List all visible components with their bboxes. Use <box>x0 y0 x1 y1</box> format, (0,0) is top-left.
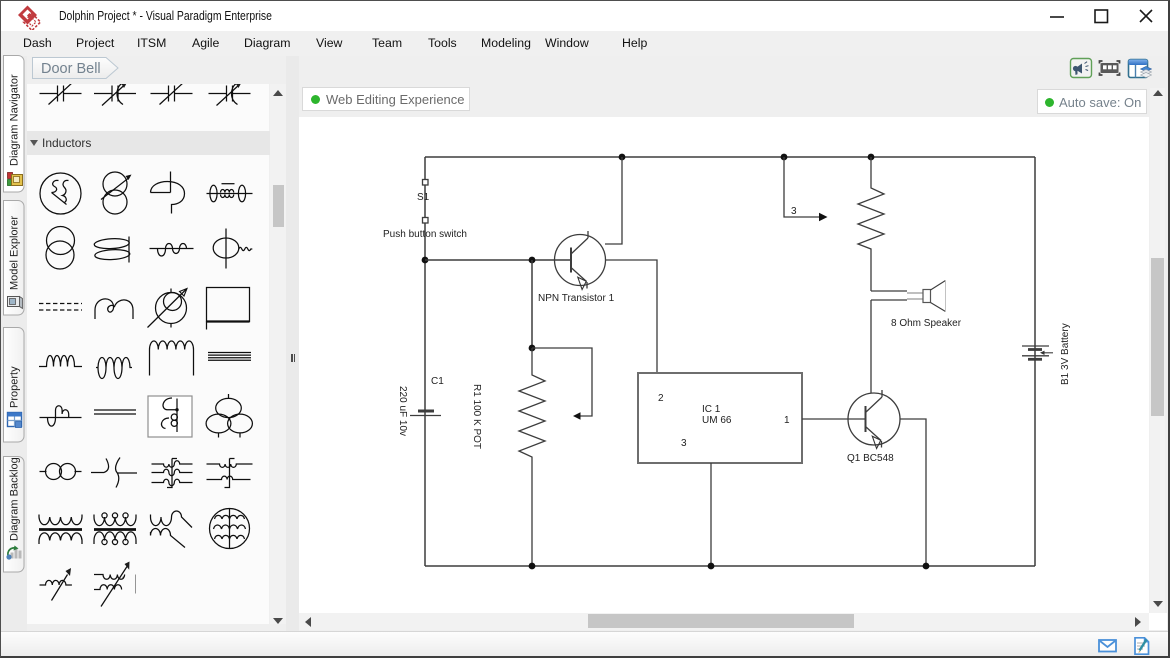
palette triple line core <box>208 353 251 361</box>
wire left rail <box>424 157 426 566</box>
svg-text:Diagram Navigator: Diagram Navigator <box>9 74 21 166</box>
wire top rail <box>425 156 1035 158</box>
palette open square coil <box>150 341 194 376</box>
label S1 <box>417 192 430 203</box>
resistor R1 100K POT zigzag <box>519 348 545 566</box>
label 220 uF 10v (rotated) <box>397 386 408 436</box>
speaker LS1 leads <box>871 291 907 390</box>
node junction pot bottom <box>529 563 536 570</box>
svg-text:IC 1: IC 1 <box>702 404 721 415</box>
diagram navigator icon <box>8 173 23 186</box>
capacitor C1 plate long <box>410 415 441 417</box>
battery B1 plate short top <box>1028 348 1042 351</box>
palette variable coil arrow <box>40 568 72 601</box>
wire Q1 collector from speaker <box>870 390 872 393</box>
palette trimmer capacitor 2 <box>94 83 136 106</box>
palette double line core <box>94 410 136 414</box>
svg-text:S1: S1 <box>417 192 430 203</box>
speaker LS1 connector <box>907 293 923 299</box>
svg-text:3: 3 <box>681 438 687 449</box>
palette three phase transformer <box>206 394 252 438</box>
svg-text:Diagram Backlog: Diagram Backlog <box>9 457 21 541</box>
transistor NPN Transistor 1 <box>555 231 606 290</box>
label 8 Ohm Speaker <box>891 318 962 329</box>
node junction at base wire left <box>422 257 429 264</box>
palette ellipse coil with tail <box>213 229 252 269</box>
node 3 junction on top rail <box>781 154 788 161</box>
node junction pot branch <box>529 257 536 264</box>
panel scrollbar <box>270 84 286 624</box>
palette wave coil deep <box>40 406 82 426</box>
palette choke with rings <box>207 184 253 202</box>
pin 3 label <box>681 438 687 449</box>
palette coupled coils small <box>40 464 82 480</box>
palette transformer two circles <box>46 227 75 270</box>
node junction top rail collector feed <box>619 154 626 161</box>
node junction IC ground <box>708 563 715 570</box>
svg-text:Q1 BC548: Q1 BC548 <box>847 453 894 464</box>
wire pot branch vertical <box>531 260 533 348</box>
svg-text:1: 1 <box>784 415 790 426</box>
wire collector feed <box>605 157 622 244</box>
filmstrip button <box>1100 61 1120 75</box>
megaphone button <box>1071 59 1092 78</box>
palette coil 4 humps <box>39 356 82 367</box>
palette coil with tail <box>151 511 193 548</box>
capacitor C1 plate short <box>418 410 434 413</box>
palette m-loop coil <box>95 299 133 319</box>
node junction Q1 ground <box>923 563 930 570</box>
palette iron core transformer B <box>94 513 136 545</box>
wire base to NPN transistor <box>425 259 571 261</box>
palette wave coil <box>150 244 194 257</box>
label 3 (net) <box>791 206 797 217</box>
svg-text:NPN Transistor 1: NPN Transistor 1 <box>538 293 615 304</box>
node junction pot top <box>529 345 536 352</box>
svg-text:UM 66: UM 66 <box>702 415 732 426</box>
label C1 <box>431 376 444 387</box>
splitter <box>286 56 299 631</box>
label R1 100 K POT (rotated) <box>471 384 482 449</box>
property icon <box>8 413 22 428</box>
envelope icon <box>1099 640 1116 652</box>
palette multiwinding transformer A <box>152 459 193 488</box>
label Push button switch <box>383 229 467 240</box>
svg-text:R1 100 K POT: R1 100 K POT <box>471 384 482 449</box>
label NPN Transistor 1 <box>538 293 615 304</box>
transistor Q1 BC548 <box>848 390 900 449</box>
label B1 3V Battery (rotated) <box>1060 323 1071 385</box>
svg-text:Model Explorer: Model Explorer <box>9 216 21 290</box>
battery B1 plate short bottom <box>1028 358 1042 361</box>
svg-text:B1 3V Battery: B1 3V Battery <box>1060 323 1071 385</box>
palette multiwinding transformer B <box>207 459 253 488</box>
wire right rail <box>1034 157 1036 566</box>
palette inductor circle-coil <box>40 173 81 214</box>
speaker LS1 driver box <box>923 290 931 303</box>
label IC 1 <box>702 404 721 415</box>
wire transistor output to IC pin 2 <box>606 260 658 373</box>
svg-text:C1: C1 <box>431 376 444 387</box>
palette trimmer capacitor 3 <box>151 83 193 105</box>
label UM 66 <box>702 415 732 426</box>
Visual Paradigm logo <box>17 4 43 30</box>
palette selected coil item <box>148 396 192 437</box>
svg-text:8 Ohm Speaker: 8 Ohm Speaker <box>891 318 962 329</box>
palette symbols SVG placeholder <box>27 84 269 624</box>
edit-doc icon <box>1135 638 1149 654</box>
IC U1 IC 1 UM 66 body <box>638 373 802 463</box>
palette circle multi-coil <box>210 509 250 549</box>
svg-text:Push button switch: Push button switch <box>383 229 467 240</box>
palette opposed hooks <box>91 458 137 488</box>
switch S1 terminal 1 <box>423 180 429 186</box>
palette trimmer capacitor 4 <box>209 83 251 106</box>
svg-text:2: 2 <box>658 393 664 404</box>
circuit SVG placeholder <box>299 117 1149 613</box>
canvas vertical scrollbar <box>1150 88 1165 613</box>
svg-text:3: 3 <box>791 206 797 217</box>
node junction speaker resistor top <box>868 154 875 161</box>
wire Q1 emitter to bottom rail <box>900 419 926 566</box>
window buttons <box>1041 1 1166 31</box>
palette rectangle block <box>207 288 250 330</box>
wire bottom rail <box>425 565 1035 567</box>
palette variable transformer circles <box>101 172 132 214</box>
canvas horizontal scrollbar <box>299 613 1149 630</box>
wire IC pin 1 to Q1 base <box>802 418 866 420</box>
badges <box>302 87 470 111</box>
battery B1 plate long bottom <box>1022 355 1049 357</box>
svg-text:Property: Property <box>9 366 21 408</box>
battery B1 plate long top <box>1022 345 1049 347</box>
wire node 3 arrow <box>784 157 828 221</box>
wire IC pin 3 to bottom rail <box>710 463 712 566</box>
label Q1 BC548 <box>847 453 894 464</box>
model explorer icon <box>8 297 23 309</box>
diagram backlog icon <box>6 546 21 560</box>
wire pot wiper loop with arrow <box>532 348 592 420</box>
resistor R2 zigzag <box>858 157 884 291</box>
palette pickup coil <box>151 172 185 214</box>
pin 1 label <box>784 415 790 426</box>
palette trimmer capacitor 1 <box>40 83 82 105</box>
pin 2 label <box>658 393 664 404</box>
switch S1 terminal 2 <box>423 218 429 224</box>
speaker LS1 horn <box>931 281 946 312</box>
palette dashed line <box>39 304 82 311</box>
svg-text:Door Bell: Door Bell <box>41 61 101 77</box>
palette iron core transformer A <box>39 515 82 545</box>
toolbar icons top right <box>1066 56 1152 80</box>
palette variable inductor circle <box>148 289 188 328</box>
palette coil 4 tall loops <box>96 358 132 379</box>
svg-text:220 uF 10v: 220 uF 10v <box>397 386 408 436</box>
battery B1 polarity arrow <box>1040 351 1053 355</box>
palette variable transformer arrow <box>94 562 136 607</box>
palette flat coil lens <box>94 237 130 263</box>
